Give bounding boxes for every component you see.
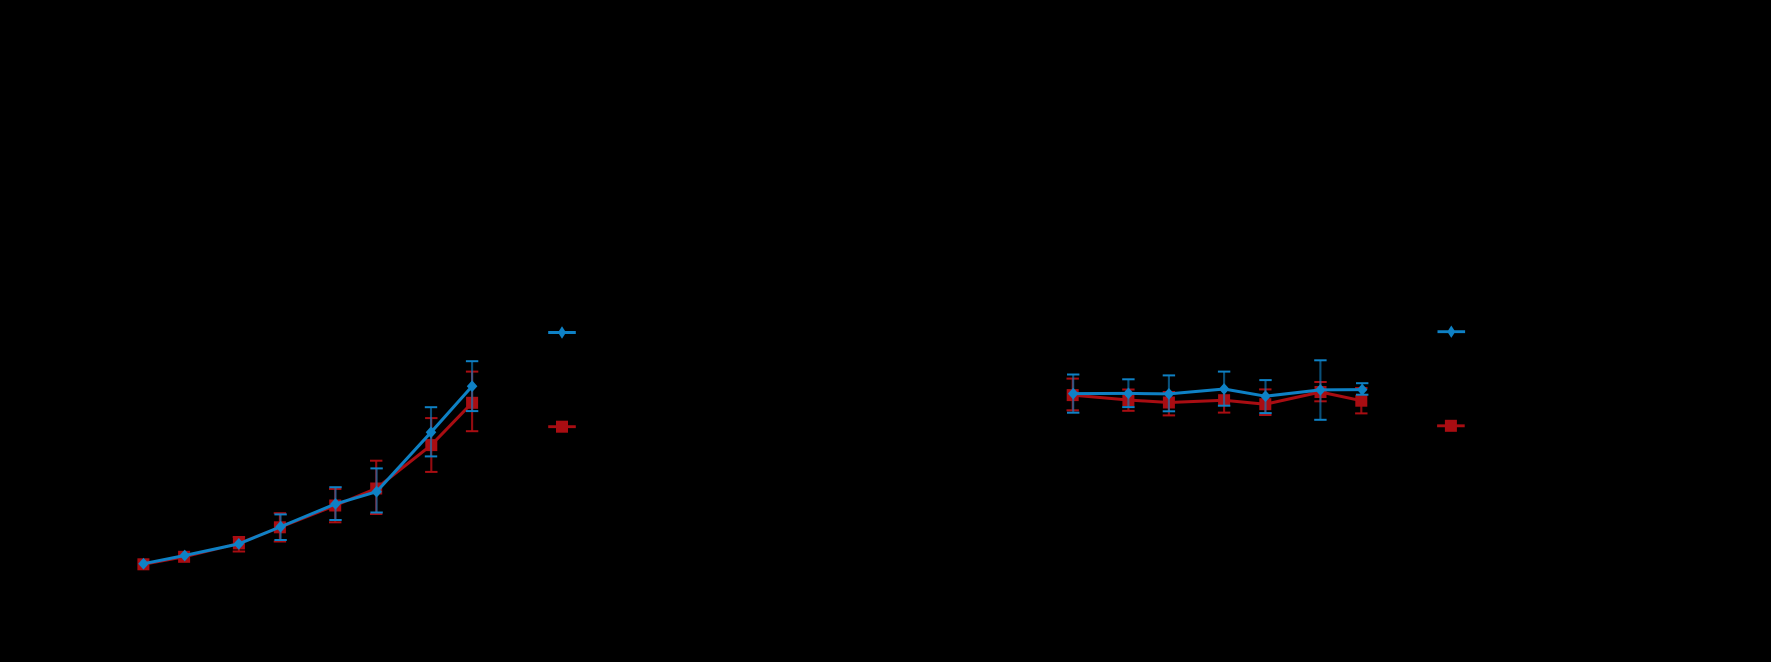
right red series markers	[1067, 386, 1368, 410]
right blue series markers	[1068, 383, 1368, 402]
left blue series markers	[138, 380, 477, 569]
left red series line	[143, 403, 472, 565]
left blue series line	[144, 386, 473, 564]
left legend blue entry	[548, 331, 576, 334]
right blue series line	[1073, 389, 1362, 396]
right red series error bars	[1067, 379, 1368, 416]
left red series markers	[137, 397, 478, 571]
left blue series error bars	[274, 361, 478, 540]
left legend red entry	[548, 425, 576, 428]
right blue series error bars	[1067, 360, 1368, 420]
right legend red entry	[1437, 424, 1465, 427]
right red series line	[1073, 392, 1362, 404]
left red series error bars	[233, 372, 479, 552]
right legend blue entry	[1438, 330, 1466, 333]
